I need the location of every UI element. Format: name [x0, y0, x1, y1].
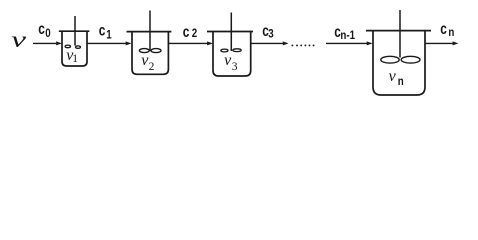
- node cn label: [440, 19, 454, 39]
- wire outlet arrow tank n: [425, 41, 458, 45]
- svg-text:c: c: [440, 19, 447, 37]
- tank V3 rim: [207, 31, 253, 33]
- tank V3 stirrer shaft: [230, 13, 232, 52]
- svg-text:n: n: [398, 75, 404, 88]
- node c0 (feed concentration label): [38, 19, 51, 40]
- svg-text:1: 1: [106, 29, 111, 42]
- tank V3 impeller: [221, 49, 241, 52]
- tank V1 impeller: [65, 45, 80, 48]
- node V2 label: [141, 52, 154, 73]
- node c n-1 label: [334, 22, 355, 42]
- svg-text:0: 0: [45, 27, 50, 40]
- tank Vn rim: [366, 30, 431, 32]
- tank Vn stirrer shaft: [399, 10, 401, 58]
- svg-text:2: 2: [149, 61, 155, 73]
- tank V2 impeller: [139, 49, 161, 53]
- node V3 label: [224, 52, 238, 73]
- tank V3 body: [213, 32, 251, 77]
- node c1 label: [99, 21, 112, 42]
- node ellipsis dots: [291, 44, 314, 46]
- svg-text:c: c: [38, 19, 45, 37]
- node c2 label: [183, 22, 197, 40]
- svg-text:1: 1: [72, 53, 78, 65]
- wire transfer arrow tank1 to tank2: [87, 41, 132, 45]
- node c3 label: [262, 21, 273, 41]
- tank V1 body: [62, 31, 87, 66]
- tank V1 stirrer shaft: [74, 16, 76, 46]
- tank V2 stirrer shaft: [149, 11, 151, 52]
- svg-text:n-1: n-1: [340, 29, 355, 42]
- svg-text:c: c: [99, 21, 106, 39]
- tank V2 body: [132, 32, 168, 75]
- svg-text:3: 3: [268, 28, 273, 41]
- tank V1 rim: [59, 30, 90, 32]
- svg-text:v: v: [11, 28, 26, 53]
- node Vn label: [389, 68, 404, 88]
- tank V2 rim: [127, 31, 172, 33]
- svg-text:c: c: [183, 22, 190, 40]
- wire transfer arrow tank2 to tank3: [168, 41, 213, 45]
- svg-text:3: 3: [232, 61, 238, 73]
- svg-text:n: n: [448, 26, 454, 39]
- wire outlet arrow tank3: [251, 41, 289, 45]
- node V1 label: [66, 47, 78, 65]
- wire inlet arrow into tank n: [326, 41, 373, 45]
- wire feed arrow into tank 1: [33, 41, 62, 45]
- svg-text:v: v: [389, 68, 397, 85]
- tank Vn body: [373, 31, 425, 95]
- svg-text:2: 2: [192, 28, 197, 41]
- tank Vn impeller: [381, 56, 420, 63]
